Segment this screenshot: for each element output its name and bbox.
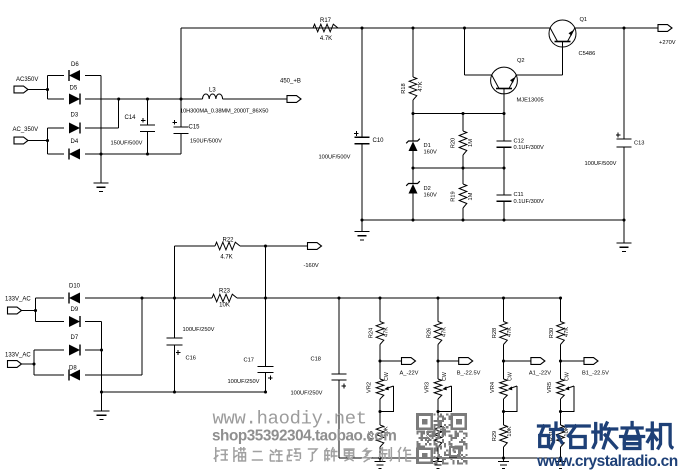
svg-text:0.1UF/300V: 0.1UF/300V — [514, 145, 545, 151]
svg-text:B1_-22.5V: B1_-22.5V — [582, 371, 609, 377]
svg-text:C13: C13 — [634, 141, 644, 147]
wire VR2 bottom lead — [379, 399, 381, 412]
svg-text:R24: R24 — [368, 328, 374, 338]
terminal -160V — [308, 243, 322, 250]
svg-text:R28: R28 — [492, 328, 498, 338]
svg-text:R17: R17 — [320, 18, 332, 24]
wire VR4 bottom lead — [503, 399, 505, 412]
svg-text:CW: CW — [442, 372, 448, 381]
wire C13 top lead — [623, 28, 625, 139]
svg-text:150UF/500V: 150UF/500V — [111, 141, 143, 147]
junction A1_-22V node — [502, 359, 505, 362]
svg-text:D5: D5 — [70, 86, 78, 92]
svg-text:D3: D3 — [71, 113, 79, 119]
wire R25 top lead — [379, 412, 381, 426]
svg-text:D9: D9 — [71, 307, 79, 313]
svg-text:R29: R29 — [492, 431, 498, 441]
svg-text:D7: D7 — [71, 335, 79, 341]
svg-text:100UF/500V: 100UF/500V — [319, 155, 351, 161]
junction node A left — [411, 112, 414, 115]
svg-text:450_+B: 450_+B — [280, 79, 301, 85]
junction B1_-22.5V node — [559, 359, 562, 362]
wire C11 bottom lead — [503, 201, 505, 220]
junction D2 ground — [411, 218, 414, 221]
junction VR5 wiper tie — [559, 410, 562, 413]
svg-text:R30: R30 — [549, 328, 555, 338]
wire ground rail — [362, 219, 624, 221]
wire to D3 anode — [48, 127, 65, 129]
wire 133V_AC terminal lead 2 — [22, 363, 34, 365]
wire C16 lower lead — [174, 345, 176, 392]
wire R20 bottom lead — [462, 155, 464, 168]
wire AC350V junction vertical — [47, 76, 49, 100]
wire C18 lower lead — [338, 380, 340, 458]
svg-text:CW: CW — [384, 372, 390, 381]
junction C16 rail — [173, 296, 176, 299]
svg-text:100UF/250V: 100UF/250V — [183, 327, 215, 333]
junction 133V_AC node 2 — [32, 362, 35, 365]
wire R30 top lead — [560, 298, 562, 322]
wire R24 bottom lead — [379, 345, 381, 362]
wire Q2 emitter to Q1 base — [516, 74, 562, 76]
wire cap negative rail — [85, 153, 181, 155]
terminal B1_-22.5V — [584, 358, 598, 365]
wire top rail left of Q1 — [181, 27, 550, 29]
wire VR2 top lead — [379, 361, 381, 379]
wire D6 anode to neg rail — [85, 75, 101, 77]
potentiometer VR3 — [434, 379, 442, 399]
wire C14 bottom lead — [147, 131, 149, 154]
wire D1 anode lead — [412, 151, 414, 168]
wire VR5 top lead — [560, 361, 562, 379]
wire riser to R17 rail — [180, 28, 182, 99]
terminal B_-22.5V — [459, 358, 473, 365]
svg-text:AC_350V: AC_350V — [13, 127, 39, 133]
junction C10 rail — [360, 26, 363, 29]
wire D10-D8 anode vertical — [141, 298, 143, 375]
svg-text:4.7K: 4.7K — [220, 255, 232, 261]
diode D6 — [69, 70, 80, 81]
junction node B right — [502, 166, 505, 169]
capacitor C12 — [497, 141, 512, 147]
svg-text:C15: C15 — [189, 125, 201, 131]
svg-text:shop35392304.taobao.com: shop35392304.taobao.com — [212, 428, 396, 445]
terminal AC350V input — [14, 86, 28, 93]
resistor R30 — [557, 322, 565, 345]
svg-text:R18: R18 — [401, 83, 407, 93]
wire Q1 base lead — [562, 42, 564, 76]
wire Q2 collector lead — [465, 74, 492, 76]
wire R18 top lead — [412, 28, 414, 77]
wire C10 top lead — [361, 28, 363, 137]
svg-text:47K: 47K — [383, 327, 389, 337]
wire C10 bottom lead — [361, 144, 363, 220]
svg-text:47K: 47K — [441, 327, 447, 337]
wire VR3 top lead — [437, 361, 439, 379]
svg-text:0.1UF/300V: 0.1UF/300V — [514, 199, 545, 205]
wire D9 cathode — [85, 321, 102, 323]
svg-text:www.crystalradio.cn: www.crystalradio.cn — [536, 453, 678, 470]
wire 133V_AC terminal lead 1 — [22, 310, 36, 312]
junction R30 rail — [559, 296, 562, 299]
wire R28 top lead — [503, 298, 505, 322]
svg-text:A1_-22V: A1_-22V — [529, 371, 551, 377]
ground branch R28 — [498, 458, 509, 469]
wire C13 bottom lead — [623, 147, 625, 220]
svg-text:10H300MA_0.38MM_2000T_86X50: 10H300MA_0.38MM_2000T_86X50 — [180, 109, 268, 115]
wire C17 upper lead — [265, 246, 267, 367]
potentiometer VR2 — [376, 379, 384, 399]
junction D5-D3 node — [117, 97, 120, 100]
svg-text:C16: C16 — [186, 356, 196, 362]
svg-text:D2: D2 — [424, 186, 431, 192]
svg-text:1M: 1M — [468, 139, 474, 147]
svg-text:1M: 1M — [468, 192, 474, 200]
junction C13 ground — [622, 218, 625, 221]
svg-text:A_-22V: A_-22V — [400, 371, 419, 377]
svg-text:R26: R26 — [426, 328, 432, 338]
wire to B1_-22.5V terminal — [561, 360, 585, 362]
wire D2 anode lead — [412, 194, 414, 221]
terminal AC_350V input — [14, 137, 28, 144]
resistor R27 — [434, 425, 442, 447]
svg-text:+270V: +270V — [659, 40, 676, 46]
svg-text:D8: D8 — [69, 366, 77, 372]
junction C14 bottom — [146, 152, 149, 155]
wire branch ground rail — [339, 457, 561, 459]
diode D5 — [69, 94, 80, 105]
inductor L3 — [203, 94, 223, 99]
wire R29 top lead — [503, 412, 505, 426]
wire C15 top lead — [180, 99, 182, 127]
junction AC_350V node — [46, 139, 49, 142]
wire node A — [413, 113, 504, 115]
wire C14 top lead — [147, 99, 149, 125]
capacitor C16 — [167, 338, 183, 355]
svg-text:-160V: -160V — [304, 263, 319, 269]
junction C14 top — [146, 97, 149, 100]
svg-text:R23: R23 — [219, 289, 231, 295]
wire R19 top lead — [462, 168, 464, 184]
wire to D4 cathode — [48, 153, 65, 155]
junction R28 rail — [502, 296, 505, 299]
svg-text:C14: C14 — [125, 115, 137, 121]
watermark logo: crystalradio Chinese characters — [539, 423, 672, 449]
svg-text:100UF/250V: 100UF/250V — [291, 391, 323, 397]
junction node B left — [411, 166, 414, 169]
wire to B_-22.5V terminal — [438, 360, 459, 362]
ground under C13 — [617, 220, 632, 251]
wire D3 cathode — [85, 127, 119, 129]
wire C16 upper lead — [174, 246, 176, 338]
ground branch R26 — [433, 458, 444, 469]
wire R25 bottom lead — [379, 447, 381, 458]
wire D2 cathode lead — [412, 168, 414, 184]
svg-text:47K: 47K — [564, 327, 570, 337]
svg-text:D4: D4 — [71, 139, 79, 145]
svg-text:R22: R22 — [222, 238, 234, 244]
zener D1 — [406, 139, 420, 151]
VR4 wiper — [504, 386, 518, 412]
svg-text:160V: 160V — [424, 150, 437, 156]
wire to ground — [100, 154, 102, 183]
wire D8 anode — [85, 374, 142, 376]
diode D9 — [69, 316, 80, 327]
diode D10 — [69, 293, 80, 304]
junction R24 rail — [378, 296, 381, 299]
junction node A mid — [461, 112, 464, 115]
svg-text:C12: C12 — [514, 139, 524, 145]
wire VR5 bottom lead — [560, 399, 562, 412]
wire 133V_AC junction vertical 1 — [35, 298, 37, 322]
diode D7 — [69, 345, 80, 356]
terminal A1_-22V — [531, 358, 545, 365]
terminal 133V_AC input 2 — [8, 361, 22, 368]
svg-text:CW: CW — [565, 372, 571, 381]
svg-text:10K: 10K — [219, 303, 230, 309]
capacitor C17 — [258, 367, 274, 381]
wire D1 cathode lead — [412, 114, 414, 142]
wire R22 left — [175, 245, 216, 247]
wire VR3 bottom lead — [437, 399, 439, 412]
wire 133V_AC junction vertical 2 — [33, 350, 35, 375]
svg-text:47K: 47K — [418, 81, 424, 91]
resistor R19 — [459, 184, 467, 208]
junction C17 rail — [264, 296, 267, 299]
junction C18 rail — [337, 296, 340, 299]
capacitor C15 — [172, 120, 188, 133]
resistor R17 — [313, 24, 338, 32]
wire C12 bottom lead — [503, 147, 505, 168]
terminal A_-22V — [402, 358, 416, 365]
junction C10 ground — [360, 218, 363, 221]
terminal 450_+B — [287, 96, 301, 103]
wire AC350V terminal lead — [28, 89, 47, 91]
wire R18 bottom lead — [412, 100, 414, 114]
wire bias feed rail — [237, 297, 561, 299]
wire bottom ground rail — [102, 391, 266, 393]
junction R26 rail — [436, 296, 439, 299]
junction R27 ground rail — [436, 456, 439, 459]
junction VR3 wiper tie — [436, 410, 439, 413]
junction C16 ground — [173, 390, 176, 393]
svg-text:R20: R20 — [450, 138, 456, 148]
watermark Chinese text: scan QR code for more projects — [214, 447, 228, 462]
wire to A_-22V terminal — [380, 360, 402, 362]
junction C15 top — [179, 97, 182, 100]
junction R31 ground rail — [559, 456, 562, 459]
svg-text:C5486: C5486 — [579, 51, 596, 57]
svg-text:150UF/500V: 150UF/500V — [190, 139, 222, 145]
wire bridge negative vertical — [100, 76, 102, 155]
junction C17 -160V node — [264, 244, 267, 247]
wire C17 lower lead — [265, 373, 267, 393]
junction 133V_AC node 1 — [34, 309, 37, 312]
resistor R18 — [409, 77, 417, 100]
svg-text:C18: C18 — [311, 357, 321, 363]
resistor R31 — [557, 425, 565, 447]
svg-text:133V_AC: 133V_AC — [5, 297, 31, 303]
wire R20 top lead — [462, 114, 464, 132]
resistor R22 — [215, 242, 240, 250]
ground branch R30 — [555, 458, 566, 469]
junction ground rail left — [100, 390, 103, 393]
wire VR4 top lead — [503, 361, 505, 379]
svg-text:L3: L3 — [209, 88, 216, 94]
wire D10 anode rail — [85, 297, 212, 299]
svg-text:10K: 10K — [507, 426, 513, 436]
capacitor C10 — [354, 131, 370, 144]
junction R19 ground — [461, 218, 464, 221]
svg-text:Q1: Q1 — [580, 17, 588, 23]
wire node B — [413, 167, 504, 169]
ground bridge — [94, 183, 109, 191]
resistor R26 — [434, 322, 442, 345]
svg-text:VR4: VR4 — [490, 382, 496, 393]
wire C15 bottom lead — [180, 133, 182, 154]
svg-text:C11: C11 — [514, 192, 524, 198]
junction C17 ground — [264, 390, 267, 393]
potentiometer VR4 — [500, 379, 508, 399]
wire R30 bottom lead — [560, 345, 562, 362]
diode D8 — [69, 370, 80, 381]
wire R31 bottom lead — [560, 447, 562, 458]
VR3 wiper — [438, 386, 452, 412]
junction D7 cathode — [100, 348, 103, 351]
svg-text:C17: C17 — [244, 358, 254, 364]
wire top rail right of Q1 — [575, 27, 658, 29]
junction VR4 wiper tie — [502, 410, 505, 413]
wire R22 to -160V terminal — [240, 245, 308, 247]
wire to A1_-22V terminal — [504, 360, 531, 362]
junction C13 rail — [622, 26, 625, 29]
svg-text:47K: 47K — [507, 327, 513, 337]
transistor Q1 — [549, 20, 576, 47]
wire R29 bottom lead — [503, 447, 505, 458]
terminal +270V — [658, 25, 672, 32]
wire R24 top lead — [379, 298, 381, 322]
terminal 133V_AC input 1 — [8, 307, 22, 314]
svg-text:VR2: VR2 — [367, 382, 373, 393]
svg-text:B_-22.5V: B_-22.5V — [457, 371, 481, 377]
junction node B mid — [461, 166, 464, 169]
svg-text:CW: CW — [508, 372, 514, 381]
wire L3 to 450_+B terminal — [223, 98, 288, 100]
resistor R25 — [376, 425, 384, 447]
wire AC_350V terminal lead — [28, 140, 47, 142]
watermark QR code — [417, 414, 468, 465]
transistor Q2 — [491, 67, 518, 94]
svg-text:www.haodiy.net: www.haodiy.net — [213, 408, 367, 430]
diode D4 — [69, 149, 80, 160]
junction R25 ground rail — [378, 456, 381, 459]
junction AC350V node — [46, 88, 49, 91]
resistor R29 — [500, 425, 508, 447]
junction A_-22V node — [378, 359, 381, 362]
wire Q2 base lead — [503, 89, 505, 114]
wire R19 bottom lead — [462, 208, 464, 220]
junction R29 ground rail — [502, 456, 505, 459]
svg-text:100UF/500V: 100UF/500V — [585, 161, 617, 167]
wire R28 bottom lead — [503, 345, 505, 362]
wire C12 top lead — [503, 114, 505, 142]
wire D5 anode — [48, 98, 65, 100]
svg-text:D10: D10 — [69, 284, 81, 290]
wire C18 upper lead — [338, 298, 340, 374]
wire D9-D7 cathode vertical — [101, 322, 103, 393]
wire to D10 cathode — [36, 297, 65, 299]
zener D2 — [406, 181, 420, 193]
svg-text:R19: R19 — [450, 191, 456, 201]
junction node A right — [502, 112, 505, 115]
resistor R20 — [459, 131, 467, 155]
capacitor C14 — [140, 118, 155, 131]
wire C11 top lead — [503, 168, 505, 195]
wire to D8 cathode — [34, 374, 64, 376]
wire to D6 cathode — [48, 75, 65, 77]
resistor R28 — [500, 322, 508, 345]
svg-text:Q2: Q2 — [517, 58, 525, 64]
junction D10 rail — [140, 296, 143, 299]
junction VR2 wiper tie — [378, 410, 381, 413]
wire D3 cathode to + rail — [118, 99, 120, 128]
svg-text:160V: 160V — [424, 193, 437, 199]
svg-text:100UF/250V: 100UF/250V — [228, 379, 260, 385]
diode D3 — [69, 123, 80, 134]
svg-text:AC350V: AC350V — [16, 77, 38, 83]
resistor R24 — [376, 322, 384, 345]
wire to D9 anode — [36, 321, 65, 323]
wire AC_350V junction vertical — [47, 128, 49, 154]
wire R26 top lead — [437, 298, 439, 322]
junction C11 ground — [502, 218, 505, 221]
wire Q2 collector riser — [464, 28, 466, 75]
junction B_-22.5V node — [436, 359, 439, 362]
resistor R23 — [212, 294, 237, 302]
svg-text:VR3: VR3 — [425, 382, 431, 393]
wire D7 cathode — [85, 349, 102, 351]
svg-text:MJE13005: MJE13005 — [517, 98, 544, 104]
wire bridge output rail — [85, 98, 203, 100]
capacitor C11 — [497, 195, 512, 201]
svg-text:C10: C10 — [373, 138, 385, 144]
VR2 wiper — [380, 386, 394, 412]
wire R27 bottom lead — [437, 447, 439, 458]
svg-text:133V_AC: 133V_AC — [5, 353, 31, 359]
wire R27 top lead — [437, 412, 439, 426]
junction R18 rail — [411, 26, 414, 29]
ground bottom bridge — [94, 392, 110, 419]
wire R26 bottom lead — [437, 345, 439, 362]
wire to D7 anode — [34, 349, 64, 351]
svg-text:D6: D6 — [71, 62, 79, 68]
capacitor C18 — [332, 374, 347, 388]
junction Q2 collector rail — [463, 26, 466, 29]
svg-text:4.7K: 4.7K — [320, 36, 332, 42]
ground branch R24 — [375, 458, 386, 469]
svg-text:VR5: VR5 — [547, 382, 553, 393]
svg-text:D1: D1 — [424, 143, 431, 149]
wire R31 top lead — [560, 412, 562, 426]
potentiometer VR5 — [557, 379, 565, 399]
VR5 wiper — [561, 386, 575, 412]
junction bridge negative — [99, 152, 102, 155]
ground under C10 — [355, 220, 370, 240]
capacitor C13 — [616, 133, 632, 147]
